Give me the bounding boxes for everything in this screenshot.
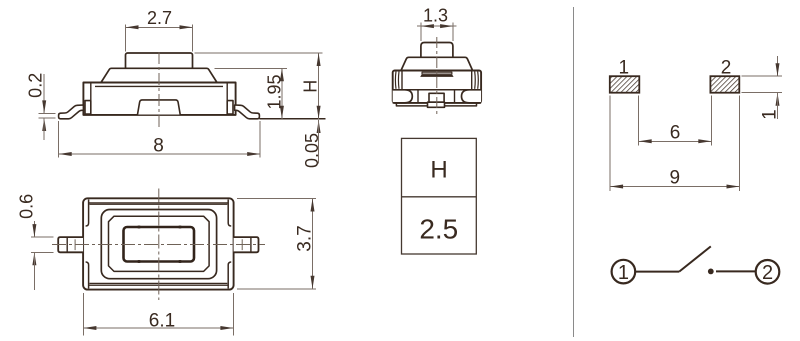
- H dim line: [318, 53, 320, 119]
- svg-text:H: H: [430, 157, 447, 184]
- svg-text:6.1: 6.1: [149, 311, 175, 332]
- right gull-wing lead: [235, 105, 260, 119]
- dim 0.6 lower line: [33, 252, 35, 290]
- switch body (side view): [83, 83, 235, 115]
- vertical centerline (side view): [158, 52, 160, 130]
- center boss upper rect: [429, 93, 444, 102]
- inner chamfered frame: [109, 216, 210, 271]
- dim 1.95 arrows: [280, 68, 284, 81]
- dim 0.05 arrow up: [317, 120, 321, 133]
- left tab inner line: [90, 83, 92, 115]
- right lead (top view): [234, 237, 259, 252]
- pad 1 (hatched): [610, 76, 640, 93]
- left gull-wing lead: [59, 105, 84, 119]
- switch stem (front view): [421, 43, 453, 57]
- dim 0.05 lower line: [318, 120, 320, 164]
- LAND PATTERN GROUP: [610, 56, 782, 191]
- left tab lower notch: [85, 101, 91, 114]
- right lead center tick: [241, 239, 243, 250]
- dim 1 ext lines: [742, 75, 782, 77]
- SCHEMATIC GROUP: [612, 246, 780, 284]
- contact dot: [708, 269, 714, 275]
- button edge nub bottom-left: [137, 260, 141, 263]
- dim 6.1 line: [83, 327, 233, 329]
- dim 8 line: [59, 153, 261, 155]
- dim 0.2 arrow down: [42, 100, 46, 113]
- dim 1.95 line: [281, 68, 283, 119]
- svg-text:3.7: 3.7: [294, 225, 315, 251]
- dim 0.2 line upper: [43, 74, 45, 113]
- dim 1 lower line: [777, 93, 779, 119]
- right lead end (D shape): [462, 90, 482, 103]
- dim 2.7 extension lines: [125, 25, 127, 52]
- dim 6.1 ext lines: [82, 293, 84, 336]
- H arrows: [317, 53, 321, 66]
- svg-text:9: 9: [670, 167, 681, 188]
- dim 9 line: [610, 186, 739, 188]
- terminal 2 circle: [756, 260, 780, 284]
- SIDE VIEW GROUP: [25, 8, 325, 168]
- dim 1.3 ext lines: [420, 23, 422, 41]
- right tab inner line: [226, 83, 228, 115]
- dim 3.7 ext lines: [237, 198, 316, 200]
- dim 0.6 arrow up: [32, 252, 36, 265]
- dim 1 arrow up: [776, 93, 780, 106]
- dim 1 upper line: [777, 56, 779, 76]
- wire from terminal 1: [636, 271, 679, 273]
- vertical centerline (front view): [436, 37, 438, 115]
- horizontal centerline (top view): [52, 244, 265, 246]
- dim 0.6 arrow down: [32, 224, 36, 237]
- svg-text:0.2: 0.2: [25, 73, 45, 98]
- dim 2.7 line: [126, 26, 193, 28]
- dim 3.7 line: [312, 199, 314, 289]
- cover corner notch top-right: [228, 200, 231, 227]
- seating plane line: [259, 118, 325, 120]
- svg-text:0.6: 0.6: [17, 194, 37, 219]
- bottom boss bump: [138, 100, 181, 115]
- left tab inner line: [401, 71, 403, 90]
- dim 0.2 ext lines: [39, 112, 56, 114]
- body mid horizontal line: [393, 89, 481, 91]
- separator line: [573, 7, 575, 337]
- center boss lower rect: [428, 102, 445, 107]
- dim 6 ext lines: [638, 96, 640, 146]
- terminal 1 circle: [612, 260, 636, 284]
- cover bottom inner line: [90, 282, 228, 284]
- left lead center tick: [74, 239, 76, 250]
- svg-text:2.5: 2.5: [419, 214, 458, 245]
- switch cap (front view): [401, 57, 473, 70]
- cover bottom edge line: [89, 284, 229, 286]
- switch cap (side view): [101, 68, 217, 82]
- svg-text:0.05: 0.05: [302, 133, 322, 168]
- button edge nub bottom-right: [178, 260, 182, 263]
- cover corner notch top-left: [86, 200, 89, 227]
- dim 0.6 ext lines: [31, 236, 54, 238]
- dim 1.95 top extension line: [215, 67, 288, 69]
- body inner top line: [95, 85, 223, 87]
- dim 0.2 arrow up: [42, 118, 46, 131]
- dim 0.6 upper line: [33, 221, 35, 237]
- dim 6 line: [639, 140, 712, 142]
- svg-text:1: 1: [760, 109, 781, 120]
- actuator button (thick rect): [124, 227, 195, 262]
- svg-text:6: 6: [670, 123, 681, 144]
- cover top edge line: [89, 202, 229, 204]
- dim 9 arrows: [610, 185, 623, 189]
- left lead bend line: [66, 237, 68, 252]
- svg-text:8: 8: [153, 136, 164, 157]
- svg-text:1: 1: [618, 262, 629, 284]
- dim 8 ext lines: [58, 121, 60, 158]
- cover outline rounded rect: [101, 210, 216, 279]
- right tab curves: [475, 72, 479, 89]
- svg-text:2: 2: [762, 262, 773, 284]
- svg-text:2.7: 2.7: [147, 8, 172, 28]
- internal contact strip outline: [422, 72, 452, 74]
- svg-text:H: H: [301, 80, 321, 93]
- left lead (top view): [58, 237, 83, 252]
- wire to terminal 2: [716, 270, 756, 272]
- TOP VIEW GROUP: [17, 189, 317, 336]
- dim 1.3 arrows: [421, 24, 434, 28]
- cover corner notch bottom-left: [86, 262, 89, 289]
- right tab inner line: [471, 71, 473, 90]
- button edge nub top-left: [137, 226, 141, 229]
- right tab lower notch: [227, 101, 233, 114]
- dim 2.7 arrows: [126, 25, 139, 29]
- H top extension line: [195, 52, 323, 54]
- cover top inner line: [90, 203, 228, 205]
- body outline (top view): [83, 198, 234, 289]
- cover corner notch bottom-right: [228, 262, 231, 289]
- FRONT VIEW GROUP: [393, 5, 481, 114]
- dim 1.3 line: [417, 25, 457, 27]
- dim 1 arrow down: [776, 63, 780, 76]
- bottom base plate: [396, 103, 476, 106]
- button edge nub top-right: [178, 226, 182, 229]
- left lead end (D shape): [393, 90, 413, 103]
- dim 0.2 line lower: [43, 118, 45, 140]
- switch blade (open): [679, 246, 711, 271]
- svg-text:1: 1: [619, 58, 630, 79]
- left tab curves: [395, 72, 399, 89]
- H table frame: [402, 138, 477, 254]
- dim 8 arrows: [59, 152, 72, 156]
- right lead bend line: [250, 237, 252, 252]
- pad 2 (hatched): [710, 76, 739, 93]
- svg-text:1.3: 1.3: [423, 5, 448, 25]
- dim 6.1 arrows: [83, 326, 96, 330]
- switch stem (side view): [126, 53, 193, 69]
- dim 3.7 arrows: [311, 199, 315, 212]
- switch body (front view): [393, 71, 481, 103]
- H table divider: [402, 196, 477, 198]
- svg-text:1.95: 1.95: [265, 74, 285, 109]
- center region divider lines: [417, 90, 419, 103]
- internal contact bar (dark): [420, 75, 453, 77]
- dim 6 arrows: [639, 139, 652, 143]
- TABLE GROUP: [402, 138, 477, 254]
- dim 9 ext lines: [609, 96, 611, 192]
- svg-text:2: 2: [721, 58, 732, 79]
- vertical centerline (top view): [158, 189, 160, 301]
